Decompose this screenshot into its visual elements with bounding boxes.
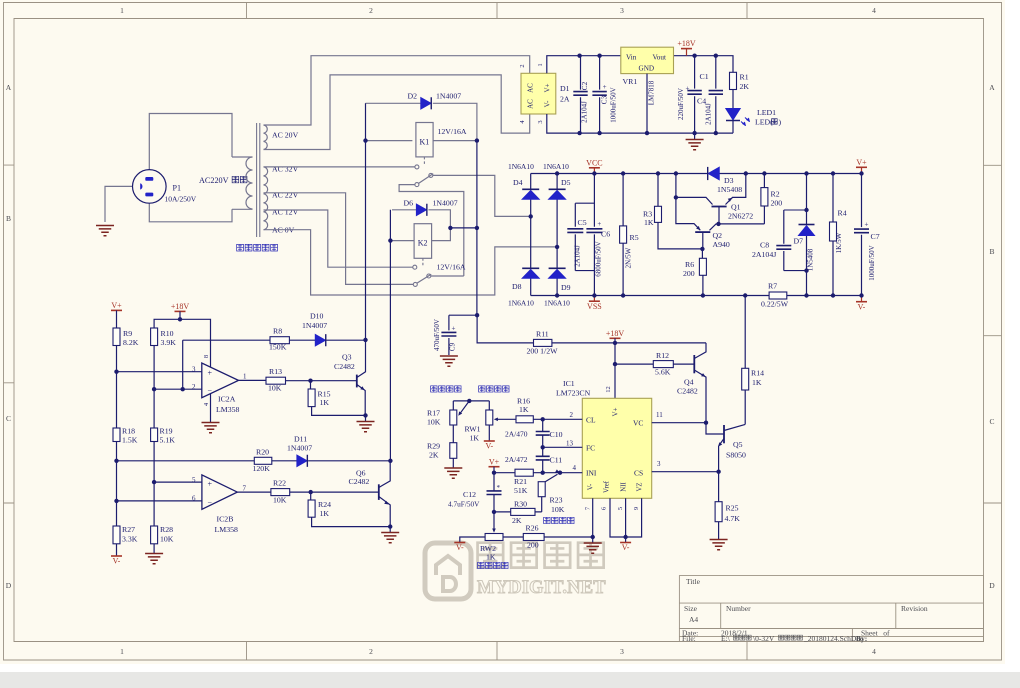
- resistor R8: [183, 339, 316, 341]
- svg-text:AC 12V: AC 12V: [272, 208, 299, 217]
- svg-text:*: *: [497, 484, 501, 492]
- svg-text:C7: C7: [871, 232, 880, 241]
- svg-text:2A: 2A: [560, 95, 570, 104]
- ground below Q3: [365, 415, 367, 421]
- VCC top rail: [531, 173, 708, 175]
- bottom V- rail: [531, 295, 862, 297]
- diode D10: [315, 334, 325, 345]
- ground below IC2A: [202, 423, 220, 433]
- svg-text:470uF/50V: 470uF/50V: [433, 319, 441, 351]
- svg-text:1000uF/50V: 1000uF/50V: [868, 245, 876, 280]
- ground below Q6: [389, 527, 391, 532]
- wire IC2B pin6: [117, 500, 202, 502]
- svg-text:Size: Size: [684, 604, 698, 613]
- wire AC22V to K2 contact: [264, 193, 414, 285]
- svg-text:1: 1: [243, 373, 247, 381]
- resistor R1: [730, 72, 737, 89]
- resistor R30: [494, 511, 542, 513]
- svg-text:200: 200: [527, 541, 539, 550]
- power port VSS: [593, 296, 595, 302]
- op-amp IC2A LM358: [202, 363, 239, 398]
- capacitor C7: [861, 174, 863, 296]
- resistor R3: [658, 174, 702, 249]
- wire K2 coil left: [390, 240, 414, 242]
- wire K1 contact to rectifier input: [433, 175, 531, 216]
- svg-text:A4: A4: [689, 615, 698, 624]
- svg-text:10K: 10K: [551, 505, 565, 514]
- svg-text:1N6A10: 1N6A10: [544, 299, 570, 308]
- svg-text:C1: C1: [700, 72, 709, 81]
- power port V- below IC1: [625, 537, 627, 543]
- svg-text:4.7uF/50V: 4.7uF/50V: [448, 500, 480, 509]
- svg-text:2A104J: 2A104J: [752, 250, 776, 259]
- svg-text:D6: D6: [404, 199, 414, 208]
- power port V+ right: [861, 167, 863, 173]
- svg-text:8.2K: 8.2K: [123, 338, 139, 347]
- wire IC2A pin4 to ground: [210, 394, 212, 422]
- potentiometer R23: [538, 482, 545, 497]
- resistor R2: [763, 174, 765, 224]
- power port V- below RW1: [488, 425, 490, 441]
- svg-text:File:: File:: [682, 634, 696, 643]
- ground below plug: [96, 226, 114, 236]
- svg-text:+18V: +18V: [171, 302, 190, 311]
- capacitor C11: [542, 447, 544, 472]
- resistor R13: [266, 377, 286, 384]
- capacitor C1: [715, 56, 717, 133]
- svg-text:R13: R13: [269, 367, 282, 376]
- svg-text:R9: R9: [123, 329, 132, 338]
- svg-text:1N6A10: 1N6A10: [508, 162, 534, 171]
- resistor R11: [534, 339, 552, 346]
- svg-text:1N4007: 1N4007: [287, 444, 312, 453]
- svg-text:C2482: C2482: [349, 477, 370, 486]
- svg-text:10K: 10K: [273, 496, 287, 505]
- wire +18V to R10 and pin8: [154, 319, 210, 367]
- svg-text:1N5408: 1N5408: [717, 185, 742, 194]
- potentiometer RW1: [453, 401, 489, 410]
- svg-text:C12: C12: [463, 490, 476, 499]
- svg-text:Title: Title: [686, 577, 701, 586]
- svg-text:R14: R14: [751, 369, 764, 378]
- svg-text:AC 22V: AC 22V: [272, 191, 299, 200]
- svg-text:1K: 1K: [644, 218, 654, 227]
- junction dots mid rails: [555, 171, 559, 175]
- svg-text:D10: D10: [310, 312, 324, 321]
- svg-text:V-: V-: [544, 100, 552, 107]
- svg-text:5.1K: 5.1K: [160, 436, 176, 445]
- svg-text:D9: D9: [561, 283, 571, 292]
- svg-text:2A/470: 2A/470: [505, 430, 528, 439]
- svg-text:2N6272: 2N6272: [728, 212, 753, 221]
- svg-text:\0-32V: \0-32V: [753, 634, 775, 643]
- svg-text:AC220V: AC220V: [199, 176, 229, 185]
- diode D7 and capacitor C8: [806, 174, 808, 296]
- vertical net D2 to Q3 collector node: [365, 103, 367, 340]
- svg-text:+: +: [686, 85, 690, 93]
- wire AC12V to K2 contact: [264, 210, 413, 267]
- svg-text:1N4007: 1N4007: [302, 321, 327, 330]
- transistor Q5 S8050: [723, 425, 725, 443]
- svg-text:8: 8: [203, 355, 210, 358]
- svg-text:0.22/5W: 0.22/5W: [761, 300, 789, 309]
- relay K1: [416, 123, 433, 157]
- svg-text:10K: 10K: [268, 384, 282, 393]
- svg-text:R10: R10: [161, 329, 174, 338]
- svg-text:1N4007: 1N4007: [433, 199, 458, 208]
- svg-text:R5: R5: [630, 233, 639, 242]
- svg-text:1: 1: [120, 6, 124, 15]
- svg-text:C5: C5: [578, 218, 587, 227]
- svg-text:E:\: E:\: [721, 634, 731, 643]
- wire INI pin: [533, 472, 582, 474]
- svg-text:R7: R7: [768, 282, 777, 291]
- junction dots IC2A area: [178, 317, 182, 321]
- svg-text:4: 4: [872, 6, 876, 15]
- svg-text:D2: D2: [408, 92, 418, 101]
- svg-text:+: +: [208, 368, 213, 377]
- svg-text:C2: C2: [581, 81, 589, 90]
- svg-text:51K: 51K: [514, 486, 528, 495]
- diode D4: [530, 174, 532, 217]
- svg-text:AC: AC: [527, 99, 535, 109]
- svg-text:R18: R18: [122, 427, 135, 436]
- svg-text:LED(: LED(: [755, 118, 773, 127]
- wire R20 D11 line: [117, 460, 391, 462]
- svg-text:VSS: VSS: [587, 302, 602, 311]
- svg-text:V-: V-: [622, 543, 630, 552]
- svg-text:Q1: Q1: [731, 203, 741, 212]
- svg-text:1: 1: [120, 647, 124, 656]
- transistor Q4 C2482: [693, 355, 695, 373]
- svg-text:R29: R29: [427, 442, 440, 451]
- svg-text:R22: R22: [273, 479, 286, 488]
- power port +18V top: [686, 49, 688, 56]
- svg-text:C11: C11: [550, 455, 563, 464]
- svg-text:R6: R6: [685, 260, 694, 269]
- watermark text: [478, 543, 504, 568]
- svg-text:D5: D5: [561, 178, 571, 187]
- regulator VR1 LM7818: [621, 47, 674, 73]
- svg-text:220uF/50V: 220uF/50V: [677, 88, 685, 120]
- resistor R16: [498, 418, 543, 420]
- svg-text:IC2B: IC2B: [217, 515, 234, 524]
- svg-text:2A104J: 2A104J: [574, 245, 582, 267]
- diode D2: [421, 98, 431, 109]
- wire AC20V bottom to bridge D1 pin4: [264, 75, 530, 150]
- resistor R15: [310, 381, 312, 389]
- svg-text:12V/16A: 12V/16A: [438, 127, 467, 136]
- svg-text:Q4: Q4: [684, 378, 694, 387]
- wire top rail stub R1: [674, 56, 734, 73]
- wire K1 coil left: [366, 140, 413, 142]
- svg-text:2K: 2K: [740, 82, 750, 91]
- wire D6 relay branch: [392, 209, 416, 211]
- svg-text:12V/16A: 12V/16A: [437, 263, 466, 272]
- svg-text:K2: K2: [418, 239, 428, 248]
- svg-text:10K: 10K: [160, 535, 174, 544]
- resistor R20: [254, 457, 271, 464]
- svg-text:C10: C10: [550, 430, 563, 439]
- wire IC2B output: [237, 491, 271, 493]
- diode D11: [297, 455, 307, 466]
- power port VCC: [593, 168, 595, 174]
- svg-text:LM7818: LM7818: [648, 80, 656, 105]
- svg-text:D4: D4: [513, 178, 523, 187]
- svg-text:B: B: [6, 214, 11, 223]
- svg-text:LM358: LM358: [215, 525, 238, 534]
- svg-text:V+: V+: [489, 457, 500, 466]
- svg-text:RW1: RW1: [465, 424, 481, 433]
- junction dots center: [475, 313, 479, 317]
- resistor R22: [271, 489, 290, 496]
- wire D2 relay branch: [366, 102, 421, 104]
- svg-text:R27: R27: [122, 525, 135, 534]
- svg-text:By:: By:: [856, 634, 867, 643]
- feedback vertical R8 to pin2: [182, 340, 184, 389]
- wire RW2 left to V- port: [460, 537, 485, 543]
- svg-text:R26: R26: [526, 524, 539, 533]
- label current adjust: [479, 386, 485, 392]
- svg-text:4.7K: 4.7K: [725, 514, 741, 523]
- wire op-amp IC2A pin3 input: [117, 371, 202, 373]
- svg-text:C9: C9: [449, 342, 457, 351]
- svg-text:2: 2: [369, 6, 373, 15]
- svg-text:VR1: VR1: [623, 77, 638, 86]
- svg-text:+: +: [452, 325, 456, 333]
- svg-text:12: 12: [605, 386, 612, 393]
- svg-text:1N6A10: 1N6A10: [508, 299, 534, 308]
- resistor R19: [151, 428, 158, 442]
- svg-text:10A/250V: 10A/250V: [165, 195, 197, 204]
- junction dots AC section: [363, 138, 367, 142]
- svg-text:Q5: Q5: [733, 440, 743, 449]
- capacitor C4: [694, 56, 696, 133]
- svg-text:+: +: [208, 480, 213, 489]
- title block: [679, 576, 983, 642]
- svg-text:3.9K: 3.9K: [161, 338, 177, 347]
- svg-text:Vref: Vref: [603, 480, 610, 493]
- svg-text:NII: NII: [621, 482, 628, 492]
- svg-text:+: +: [603, 83, 607, 91]
- vertical net K1 right to C9: [476, 141, 478, 316]
- svg-text:1K: 1K: [320, 398, 330, 407]
- label transformer: [237, 244, 244, 251]
- svg-text:V+: V+: [612, 407, 620, 416]
- svg-text:R30: R30: [514, 499, 527, 508]
- label current setting: [431, 386, 437, 392]
- wire K1 coil right: [433, 140, 477, 142]
- svg-text:): ): [779, 118, 782, 127]
- svg-text:P1: P1: [173, 184, 181, 193]
- watermark logo MYDIGIT: [425, 543, 471, 599]
- svg-text:R2: R2: [771, 190, 780, 199]
- plug P1: [133, 170, 167, 204]
- svg-text:7: 7: [243, 485, 247, 493]
- svg-text:6800uF/50V: 6800uF/50V: [595, 241, 603, 276]
- svg-text:200: 200: [771, 199, 783, 208]
- svg-text:13: 13: [566, 440, 574, 448]
- svg-text:1K/5W: 1K/5W: [835, 232, 843, 253]
- svg-text:5: 5: [617, 507, 624, 510]
- potentiometer RW2: [493, 512, 495, 529]
- transformer core: [257, 123, 260, 237]
- svg-text:C3: C3: [601, 95, 609, 104]
- svg-text:C6: C6: [601, 230, 610, 239]
- svg-text:3: 3: [537, 120, 544, 123]
- svg-text:K1: K1: [420, 138, 430, 147]
- resistor R7 series in rail: [769, 292, 787, 299]
- capacitor C6: [593, 174, 595, 296]
- wire CS pin: [652, 471, 719, 473]
- svg-text:1: 1: [537, 63, 544, 66]
- svg-text:1N4007: 1N4007: [436, 92, 461, 101]
- svg-text:R11: R11: [536, 330, 549, 339]
- resistor R26: [503, 536, 593, 538]
- wire K2 moving contact: [431, 275, 464, 277]
- resistor R29: [450, 443, 457, 459]
- wire IC1 bottom pins: [593, 498, 642, 537]
- wire K2 coil right: [432, 229, 451, 240]
- svg-text:D11: D11: [294, 435, 307, 444]
- junction dots IC2B area: [114, 459, 118, 463]
- resistor R24: [310, 492, 312, 500]
- svg-text:5.6K: 5.6K: [655, 368, 671, 377]
- power port V- right: [861, 296, 863, 302]
- wire VR1 GND pin: [646, 74, 648, 134]
- svg-text:2A104J: 2A104J: [705, 103, 713, 125]
- svg-text:D3: D3: [724, 176, 734, 185]
- svg-text:+: +: [597, 220, 601, 228]
- svg-text:V+: V+: [544, 83, 552, 92]
- svg-text:V-: V-: [456, 543, 464, 552]
- svg-text:V-: V-: [485, 442, 493, 451]
- svg-text:LED1: LED1: [757, 108, 776, 117]
- svg-text:C2482: C2482: [334, 362, 355, 371]
- wire AC20V top to bridge D1: [264, 56, 530, 125]
- wire K2 D6 node to C9 node: [450, 227, 477, 229]
- svg-text:VC: VC: [633, 419, 643, 428]
- wire K1 moving contact path: [399, 185, 464, 276]
- wire VC pin to Q5 base: [652, 423, 724, 434]
- svg-text:D8: D8: [512, 282, 522, 291]
- resistor R27: [113, 526, 120, 544]
- svg-text:4: 4: [872, 647, 876, 656]
- svg-text:R17: R17: [427, 409, 440, 418]
- wire AC0V to rectifier input: [264, 230, 557, 295]
- svg-text:1N5408: 1N5408: [807, 248, 815, 271]
- svg-text:A: A: [6, 83, 12, 92]
- svg-text:+18V: +18V: [677, 39, 696, 48]
- svg-text:D1: D1: [560, 84, 570, 93]
- svg-text:200: 200: [683, 269, 695, 278]
- svg-text:FC: FC: [586, 443, 595, 452]
- svg-text:R25: R25: [726, 504, 739, 513]
- power port V+ left: [111, 309, 122, 311]
- label voltage adjust: [478, 562, 484, 568]
- svg-text:3: 3: [620, 647, 624, 656]
- wire D1 V- to bottom rail: [547, 114, 733, 133]
- svg-text:2: 2: [192, 383, 196, 391]
- wire CL pin: [543, 418, 583, 420]
- wire plug leads: [105, 186, 133, 222]
- label voltage setting: [544, 517, 550, 523]
- svg-text:R19: R19: [160, 427, 173, 436]
- diode D9: [556, 247, 558, 296]
- svg-text:VZ: VZ: [637, 482, 644, 491]
- transformer secondary winding 32-0V: [264, 167, 268, 230]
- svg-text:11: 11: [656, 411, 663, 419]
- svg-text:−: −: [208, 498, 213, 507]
- diode D6: [416, 204, 426, 215]
- svg-text:Revision: Revision: [901, 604, 928, 613]
- svg-text:Vin: Vin: [626, 54, 637, 62]
- svg-text:V-: V-: [588, 483, 595, 490]
- transformer secondary winding 20V: [264, 125, 268, 150]
- svg-text:1N6A10: 1N6A10: [543, 162, 569, 171]
- svg-text:IC2A: IC2A: [218, 395, 236, 404]
- svg-text:D: D: [989, 581, 995, 590]
- potentiometer R17: [452, 401, 454, 443]
- svg-text:3: 3: [192, 366, 196, 374]
- svg-text:R8: R8: [273, 327, 282, 336]
- K2 switch contacts: [413, 265, 417, 269]
- svg-text:C8: C8: [760, 241, 769, 250]
- diode D5: [556, 174, 558, 247]
- svg-text:R24: R24: [318, 500, 331, 509]
- capacitor C5: [575, 203, 594, 270]
- svg-text:LM723CN: LM723CN: [556, 389, 591, 398]
- svg-text:2A104J: 2A104J: [581, 101, 589, 123]
- svg-text:D7: D7: [794, 237, 804, 246]
- svg-text:1K: 1K: [320, 509, 330, 518]
- ground below R25: [710, 540, 728, 550]
- svg-text:5: 5: [192, 476, 196, 484]
- svg-text:1K: 1K: [519, 405, 529, 414]
- svg-text:VCC: VCC: [586, 158, 602, 167]
- diode D3 series in rail: [708, 167, 719, 179]
- resistor R25: [718, 472, 720, 502]
- capacitor C12: [493, 473, 495, 512]
- capacitor C9: [449, 314, 477, 316]
- svg-text:2: 2: [570, 411, 574, 419]
- svg-text:V-: V-: [113, 557, 121, 566]
- bottom gray bar: [0, 672, 1020, 688]
- svg-text:C: C: [6, 414, 11, 423]
- resistor R14: [742, 368, 749, 390]
- wire VCC to Q1 collector net: [675, 174, 677, 198]
- LED1: [726, 109, 740, 120]
- svg-text:S8050: S8050: [726, 451, 746, 460]
- ground below pin7: [592, 537, 594, 543]
- svg-text:1K: 1K: [470, 433, 480, 442]
- power port V+ center: [489, 466, 500, 468]
- resistor R9: [113, 328, 120, 346]
- op-amp IC2B LM358: [202, 475, 237, 509]
- svg-text:2N/5W: 2N/5W: [625, 247, 633, 268]
- ground below R29: [452, 458, 454, 467]
- ground below C9: [440, 356, 458, 366]
- svg-text:2K: 2K: [512, 516, 522, 525]
- wire IC2B pin5: [154, 481, 202, 483]
- transistor Q2 A940: [695, 231, 710, 233]
- svg-text:_20180124.SchDoc: _20180124.SchDoc: [803, 634, 864, 643]
- svg-text:R12: R12: [656, 351, 669, 360]
- diode D8: [530, 216, 532, 295]
- svg-text:A940: A940: [713, 240, 730, 249]
- svg-text:1.5K: 1.5K: [122, 436, 138, 445]
- relay K2: [414, 224, 432, 259]
